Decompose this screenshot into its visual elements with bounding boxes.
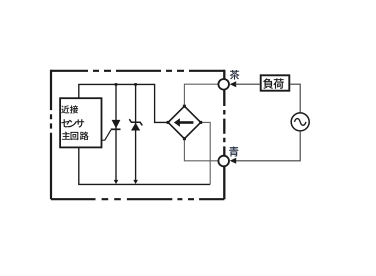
sensor enclosure dash-dot outline, top edge [51, 70, 224, 72]
terminal: blue (青) output circle [218, 156, 229, 167]
terminal: brown (茶) output circle [218, 79, 229, 90]
wire: diamond bottom to blue terminal [184, 139, 218, 161]
node: diamond top corner dot [183, 105, 186, 108]
label 主回路 (line 3) [62, 132, 89, 141]
wire: SCR branch vertical [115, 84, 117, 180]
arrowhead into bottom rail (zener branch) [133, 180, 138, 184]
node: diamond bottom corner dot [183, 137, 186, 140]
arrowhead into bottom rail (SCR branch) [114, 180, 119, 184]
wire: diamond top to brown terminal [184, 84, 218, 106]
node: diamond right corner dot [199, 121, 202, 124]
AC source (circle with sine) [291, 113, 309, 131]
label センサ (line 2) [61, 119, 84, 127]
zener diode ZD (triangle + bent bar) [129, 119, 142, 130]
label 青 (blue) [229, 146, 239, 156]
wire: SCR gate from main circuit box [102, 130, 111, 140]
arrowhead into brown terminal [230, 81, 237, 87]
node: diamond left corner dot [167, 121, 170, 124]
wire: box bottom down to internal bottom rail, right to riser [79, 147, 210, 184]
wire: AC source to blue terminal [235, 131, 300, 161]
wire: load to AC source [290, 84, 300, 113]
wire: brown terminal to load [235, 83, 260, 85]
proximity sensor main circuit box [60, 98, 101, 147]
node: junction dot on top rail at zener branch [134, 83, 137, 86]
sensor enclosure dash-dot outline, right edge (through terminals) [223, 70, 225, 200]
current source symbol (diamond with left arrow) [168, 106, 201, 139]
label 負荷 (load) [263, 78, 284, 89]
node: junction dot on top rail at SCR branch [115, 83, 118, 86]
sensor enclosure dash-dot outline, left edge [50, 70, 52, 200]
label 茶 (brown) [230, 70, 240, 80]
load box 負荷 [261, 75, 290, 90]
thyristor SCR (triangle + cathode bar) [111, 120, 121, 129]
wire: zener branch vertical [135, 84, 137, 180]
wire: diamond right corner down to bottom rail [201, 122, 211, 184]
label 近接 (line 1) [61, 105, 78, 113]
wire: box top to internal top rail, down to current-source left corner [79, 84, 168, 122]
sensor enclosure dash-dot outline, bottom edge [51, 198, 224, 200]
arrowhead into blue terminal [230, 158, 237, 164]
